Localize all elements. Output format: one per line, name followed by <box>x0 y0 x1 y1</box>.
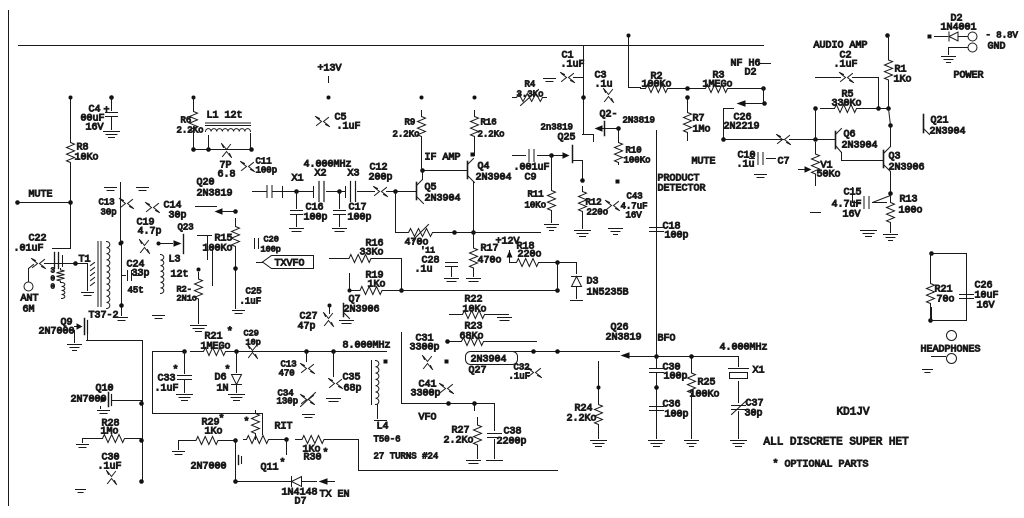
svg-text:45t: 45t <box>128 286 144 296</box>
svg-text:16V: 16V <box>626 211 643 221</box>
svg-text:D2: D2 <box>745 68 757 79</box>
svg-text:33Ko: 33Ko <box>360 248 384 259</box>
svg-text:100p: 100p <box>665 410 689 421</box>
svg-text:10Ko: 10Ko <box>75 153 99 164</box>
svg-text:T1: T1 <box>79 255 91 266</box>
svg-text:R16: R16 <box>481 118 497 128</box>
svg-text:R13: R13 <box>900 195 918 206</box>
svg-text:1Mo: 1Mo <box>693 125 711 136</box>
svg-text:Q27: Q27 <box>469 366 487 377</box>
svg-text:10Ko: 10Ko <box>525 201 547 211</box>
svg-text:100Ko: 100Ko <box>624 156 651 166</box>
svg-text:R7: R7 <box>693 114 705 125</box>
svg-text:30p: 30p <box>101 208 117 218</box>
svg-text:Q4: Q4 <box>478 162 490 173</box>
svg-text:100p: 100p <box>261 245 281 255</box>
svg-text:16V: 16V <box>86 123 104 134</box>
svg-text:2N7000: 2N7000 <box>39 327 75 338</box>
svg-text:3300p: 3300p <box>411 389 441 400</box>
svg-text:2N3819: 2N3819 <box>606 333 642 344</box>
svg-text:C25: C25 <box>246 287 262 297</box>
svg-text:*: * <box>244 417 250 429</box>
svg-text:68p: 68p <box>344 384 362 395</box>
svg-text:2N3904: 2N3904 <box>471 355 507 366</box>
svg-text:L3: L3 <box>169 255 181 266</box>
svg-text:2.2Ko: 2.2Ko <box>393 130 420 140</box>
svg-text:8.000MHz: 8.000MHz <box>343 341 391 352</box>
svg-text:47p: 47p <box>298 322 316 333</box>
svg-text:Q21: Q21 <box>931 116 949 127</box>
svg-text:C13: C13 <box>99 198 115 208</box>
svg-text:2N3904: 2N3904 <box>476 173 512 184</box>
svg-text:2N7000: 2N7000 <box>191 462 227 473</box>
svg-text:3: 3 <box>51 268 56 276</box>
svg-text:2N3904: 2N3904 <box>842 141 878 152</box>
svg-text:4.000MHz: 4.000MHz <box>304 160 352 171</box>
svg-text:X3: X3 <box>348 169 360 180</box>
svg-text:Q3: Q3 <box>889 152 901 163</box>
svg-text:2N3819: 2N3819 <box>623 116 655 126</box>
svg-text:2n3819: 2n3819 <box>541 123 573 133</box>
svg-text:12t: 12t <box>171 270 189 281</box>
svg-text:*: * <box>173 365 179 377</box>
svg-text:2.2Ko: 2.2Ko <box>567 414 597 425</box>
svg-text:R10: R10 <box>626 146 642 156</box>
svg-text:16V: 16V <box>843 210 861 221</box>
svg-text:T50-6: T50-6 <box>374 435 401 445</box>
svg-text:2.2Ko: 2.2Ko <box>444 436 474 447</box>
svg-text:.1uF: .1uF <box>155 384 179 395</box>
svg-text:Q23: Q23 <box>178 223 194 233</box>
svg-text:MUTE: MUTE <box>692 157 716 168</box>
svg-text:2N3904: 2N3904 <box>930 127 966 138</box>
svg-text:TX EN: TX EN <box>320 490 350 501</box>
svg-text:BFO: BFO <box>658 334 676 345</box>
svg-text:3300p: 3300p <box>410 343 440 354</box>
svg-text:C20: C20 <box>264 235 279 245</box>
svg-text:.1u: .1u <box>737 160 755 171</box>
svg-text:70o: 70o <box>937 295 955 306</box>
svg-text:4.000MHz: 4.000MHz <box>720 343 768 354</box>
svg-text:L1 12t: L1 12t <box>207 111 243 122</box>
svg-text:10Ko: 10Ko <box>463 305 487 316</box>
svg-text:4.7p: 4.7p <box>138 227 162 238</box>
svg-text:1Ko: 1Ko <box>894 75 912 86</box>
svg-text:C15: C15 <box>844 188 862 199</box>
svg-text:.1u: .1u <box>415 265 433 276</box>
svg-text:2.2Ko: 2.2Ko <box>177 126 204 136</box>
svg-text:27 TURNS #24: 27 TURNS #24 <box>374 452 439 462</box>
svg-text:100Ko: 100Ko <box>690 390 720 401</box>
svg-text:30p: 30p <box>169 211 187 222</box>
svg-text:ANT: ANT <box>21 294 39 305</box>
svg-text:*: * <box>225 365 231 377</box>
svg-text:6.8: 6.8 <box>218 170 236 181</box>
svg-text:- 8.8V: - 8.8V <box>986 31 1019 41</box>
svg-text:68Ko: 68Ko <box>460 332 484 343</box>
svg-text:R6: R6 <box>181 116 192 126</box>
svg-text:1MEGo: 1MEGo <box>201 342 231 353</box>
svg-text:C43: C43 <box>627 192 643 202</box>
svg-text:220o: 220o <box>587 208 609 218</box>
svg-text:470o: 470o <box>478 256 502 267</box>
svg-text:1MEGo: 1MEGo <box>703 80 733 91</box>
svg-text:100p: 100p <box>348 213 372 224</box>
svg-text:D3: D3 <box>587 277 599 288</box>
svg-text:POWER: POWER <box>954 71 984 82</box>
svg-text:2.2Ko: 2.2Ko <box>478 130 505 140</box>
svg-text:1Ko: 1Ko <box>205 427 223 438</box>
svg-text:2N3906: 2N3906 <box>889 163 925 174</box>
svg-text:Q6: Q6 <box>844 130 856 141</box>
svg-text:2N1o: 2N1o <box>177 294 197 304</box>
svg-text:100p: 100p <box>256 166 278 176</box>
svg-text:1N: 1N <box>217 384 229 395</box>
svg-text:Q11: Q11 <box>261 463 279 474</box>
svg-text:10p: 10p <box>246 338 261 348</box>
svg-text:Q25: Q25 <box>558 133 576 144</box>
svg-text:Q2-: Q2- <box>600 110 618 121</box>
svg-text:X2: X2 <box>315 169 327 180</box>
svg-text:100o: 100o <box>899 206 923 217</box>
svg-text:*: * <box>227 327 234 339</box>
svg-text:R25: R25 <box>698 378 716 389</box>
svg-text:2N3904: 2N3904 <box>425 194 461 205</box>
svg-text:2N3906: 2N3906 <box>344 305 380 316</box>
svg-text:470: 470 <box>279 369 295 379</box>
svg-text:*: * <box>280 458 286 470</box>
svg-text:33p: 33p <box>132 269 150 280</box>
svg-text:0: 0 <box>51 284 56 292</box>
svg-text:.1uF: .1uF <box>98 462 122 473</box>
svg-text:1N5235B: 1N5235B <box>587 288 629 299</box>
svg-text:Q5: Q5 <box>425 183 437 194</box>
svg-text:R9: R9 <box>405 118 416 128</box>
svg-text:.1uF: .1uF <box>834 60 858 71</box>
svg-text:100p: 100p <box>664 372 688 383</box>
svg-text:220o: 220o <box>518 250 542 261</box>
svg-text:.1uF: .1uF <box>240 297 262 307</box>
svg-text:6M: 6M <box>23 305 35 316</box>
svg-text:C9: C9 <box>525 173 537 184</box>
svg-text:.01uF: .01uF <box>14 244 44 255</box>
svg-text:C35: C35 <box>343 373 361 384</box>
svg-text:.1uF: .1uF <box>337 122 361 133</box>
svg-text:130p: 130p <box>277 397 299 407</box>
svg-text:200p: 200p <box>369 173 393 184</box>
svg-text:R12: R12 <box>586 198 602 208</box>
svg-text:* OPTIONAL PARTS: * OPTIONAL PARTS <box>773 459 869 471</box>
svg-text:D7: D7 <box>295 497 307 508</box>
svg-text:GND: GND <box>988 42 1006 53</box>
svg-text:.1uF: .1uF <box>561 60 585 71</box>
svg-text:100Ko: 100Ko <box>642 80 672 91</box>
svg-text:*: * <box>323 448 329 460</box>
svg-text:R11: R11 <box>528 190 544 200</box>
svg-text:2N2219: 2N2219 <box>724 122 760 133</box>
svg-text:X1: X1 <box>753 366 765 377</box>
svg-text:2N3819: 2N3819 <box>197 189 233 200</box>
svg-text:Q10: Q10 <box>96 384 114 395</box>
svg-text:X1: X1 <box>292 174 304 185</box>
svg-text:VFO: VFO <box>419 413 437 424</box>
svg-text:.1uF: .1uF <box>509 372 531 382</box>
svg-text:330Ko: 330Ko <box>832 99 862 110</box>
svg-text:RIT: RIT <box>275 422 293 433</box>
svg-text:ALL DISCRETE SUPER HET: ALL DISCRETE SUPER HET <box>764 437 910 449</box>
svg-text:R30: R30 <box>304 453 322 464</box>
svg-text:IF AMP: IF AMP <box>425 153 461 164</box>
svg-text:1Ko: 1Ko <box>368 280 386 291</box>
svg-text:C7: C7 <box>778 157 790 168</box>
svg-text:KD1JV: KD1JV <box>837 407 870 419</box>
svg-text:100p: 100p <box>304 213 328 224</box>
svg-text:30p: 30p <box>745 409 763 420</box>
svg-text:DETECTOR: DETECTOR <box>658 184 706 195</box>
svg-text:+13V: +13V <box>318 64 342 75</box>
svg-text:2200p: 2200p <box>497 437 527 448</box>
svg-text:L4: L4 <box>377 422 389 433</box>
svg-text:R4: R4 <box>525 80 536 90</box>
svg-text:16V: 16V <box>977 301 995 312</box>
svg-text:50Ko: 50Ko <box>817 170 841 181</box>
svg-text:100p: 100p <box>665 231 689 242</box>
svg-text:0: 0 <box>51 276 56 284</box>
svg-text:Q20: Q20 <box>197 178 215 189</box>
svg-text:TXVFO: TXVFO <box>275 259 305 270</box>
svg-text:*: * <box>219 414 225 426</box>
svg-text:T37-2: T37-2 <box>89 311 119 322</box>
svg-text:'11: '11 <box>421 247 436 256</box>
svg-text:MUTE: MUTE <box>29 190 53 201</box>
